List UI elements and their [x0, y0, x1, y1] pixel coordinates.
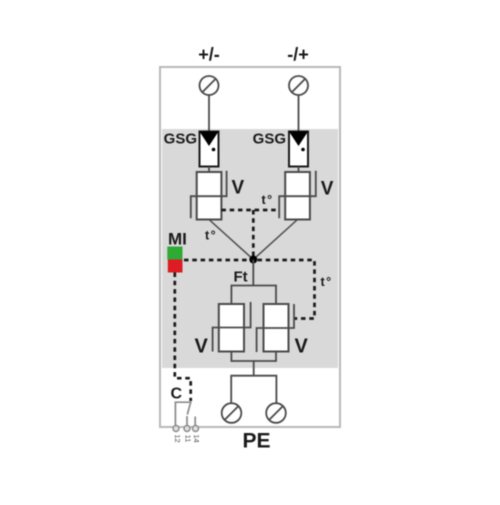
svg-text:V: V	[232, 178, 245, 199]
dashed link MI to node Ft	[184, 259, 249, 262]
dashed link MI to remote contact C	[175, 273, 191, 402]
svg-text:V: V	[295, 336, 309, 358]
svg-text:11: 11	[184, 435, 193, 443]
terminal -/+ (screw)	[289, 76, 308, 95]
varistor V4	[257, 304, 294, 352]
node Ft (junction dot)	[249, 256, 257, 264]
wire V3/V4 bottoms join	[231, 352, 276, 362]
svg-text:PE: PE	[242, 430, 270, 453]
svg-text:12: 12	[173, 434, 182, 442]
gas discharge tube GSG2	[289, 132, 308, 167]
terminal 12	[173, 426, 179, 432]
svg-text:t°: t°	[205, 229, 217, 243]
varistor V1	[191, 171, 227, 220]
varistor V3	[213, 302, 251, 352]
terminal 14	[193, 426, 199, 432]
dashed link node Ft to t° of V4	[258, 260, 315, 319]
wire join to PE splitter	[253, 361, 255, 376]
terminal PE left (screw)	[222, 403, 242, 423]
wire GSG2 to varistor V2	[298, 167, 300, 173]
svg-text:t°: t°	[321, 275, 333, 289]
remote signalling changeover contact C	[175, 402, 195, 427]
wire V2 to node Ft (diagonal)	[253, 220, 297, 260]
wire V1 to node Ft (diagonal)	[209, 220, 253, 260]
svg-text:14: 14	[192, 434, 201, 442]
svg-text:Ft: Ft	[234, 269, 248, 286]
wire PE splitter to PE terminals	[231, 376, 276, 403]
svg-text:GSG: GSG	[164, 131, 197, 148]
indicator MI (green/red flag)	[167, 247, 182, 273]
device enclosure outline	[160, 67, 340, 427]
terminal 11	[184, 426, 190, 432]
svg-text:t°: t°	[262, 193, 274, 207]
svg-text:MI: MI	[168, 230, 187, 249]
wire terminal +/- to GSG1	[208, 95, 210, 132]
varistor V2	[279, 171, 316, 220]
svg-text:C: C	[171, 386, 183, 403]
protection module shaded region	[162, 129, 338, 368]
thermal disconnect dashed link t° between V1 and V2	[221, 210, 279, 260]
terminal PE right (screw)	[266, 403, 286, 423]
svg-text:GSG: GSG	[253, 131, 286, 148]
svg-text:V: V	[195, 336, 209, 358]
wire GSG1 to varistor V1	[208, 167, 210, 173]
terminal +/- (screw)	[200, 76, 219, 95]
svg-text:V: V	[321, 179, 334, 200]
svg-text:-/+: -/+	[287, 45, 309, 65]
wire terminal -/+ to GSG2	[298, 95, 300, 132]
wire node Ft down to splitter	[252, 260, 254, 286]
gas discharge tube GSG1	[200, 132, 219, 167]
wire splitter to V3 and V4	[231, 286, 276, 305]
svg-text:+/-: +/-	[198, 45, 220, 65]
